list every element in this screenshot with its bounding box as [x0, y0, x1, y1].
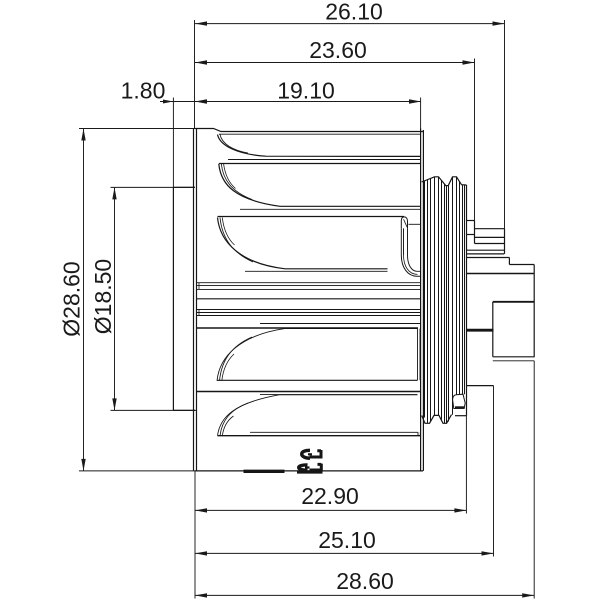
thread end facet dark bottom — [455, 406, 465, 409]
arrows dim 23.60 — [195, 60, 207, 64]
arrows dim 26.10 — [195, 21, 207, 25]
slot D bottom line — [217, 379, 418, 381]
slot E top dark line — [197, 391, 421, 393]
centre line — [197, 298, 421, 300]
rear terminal tab 2 bottom — [475, 236, 505, 238]
slot E inner offset curve — [220, 403, 248, 436]
rear block left edge — [492, 302, 494, 357]
centre band end ticks — [198, 283, 200, 316]
clip feature upper: notch tick — [308, 453, 312, 455]
rear dark step line — [493, 301, 534, 303]
slot D inner offset curve 2 — [222, 354, 234, 381]
clip feature upper: arc part — [302, 450, 310, 458]
dim 28.60 line — [195, 594, 534, 596]
rear terminal tab 2 top — [475, 228, 505, 230]
thick mark on bottom edge — [244, 470, 285, 473]
dim 25.10 line — [195, 552, 494, 554]
rear terminal tab 4 bottom — [467, 253, 505, 255]
rear shelf right edge — [508, 258, 510, 265]
slot C cap inner diagonal — [404, 219, 408, 227]
thread bottom profile — [422, 415, 452, 424]
rear lower step line — [467, 385, 494, 387]
thread top profile — [422, 177, 467, 186]
dim 19.10 line — [195, 101, 421, 103]
dim 23.60 right extension — [474, 59, 476, 221]
slot A lower rib line — [228, 159, 421, 161]
rear terminal tab 4 top — [467, 249, 505, 251]
centre band lines — [197, 283, 421, 290]
front tube face (Ø18.50 cylinder end) — [173, 187, 195, 410]
dia18.50 top extension — [111, 186, 196, 188]
rear terminal tab 1 bottom — [467, 234, 475, 236]
slot B curve — [219, 164, 421, 206]
dim 22.90 line — [195, 509, 466, 511]
slot A curve — [218, 135, 421, 157]
svg-text:23.60: 23.60 — [309, 37, 367, 63]
dim 25.10 right extension — [493, 386, 495, 557]
arrows dia28.60 — [81, 129, 85, 141]
hook mid arc — [404, 255, 418, 274]
slot C lower line — [245, 270, 388, 272]
rear block top edge — [509, 264, 534, 266]
slot E right wall — [418, 432, 420, 435]
body right edge (double line) — [421, 129, 424, 471]
dim 26.10 right extension — [504, 20, 506, 229]
slot B top line — [219, 163, 421, 165]
slot E bottom line — [218, 435, 421, 437]
clip lower baseline thick — [297, 470, 323, 473]
slot C curve — [218, 218, 388, 269]
dia18.50 bottom extension — [111, 409, 197, 411]
slot C inner offset curve 2 — [222, 218, 234, 246]
slot E upper tangent line — [260, 394, 418, 396]
slot D top dark line — [197, 327, 419, 329]
slot C top line — [218, 216, 405, 218]
arrows dim 22.90 — [195, 508, 207, 512]
dim dia28.60 vertical line — [83, 129, 85, 471]
slot A inner offset curve — [220, 135, 248, 154]
dimension texts — [59, 0, 394, 594]
svg-text:Ø28.60: Ø28.60 — [59, 261, 85, 336]
left extension of front face below body — [194, 471, 196, 599]
dia28.60 bottom extension — [79, 470, 195, 472]
dim 26.10 left extension — [194, 20, 196, 129]
slot E inner offset curve 2 — [222, 416, 233, 436]
slot C wall short line right of cap — [409, 223, 421, 225]
clip feature upper: bracket — [310, 450, 322, 457]
clip feature lower: teardrop — [299, 465, 308, 470]
svg-text:Ø18.50: Ø18.50 — [90, 259, 116, 334]
arrows dim 25.10 — [195, 551, 207, 555]
dim 19.10 right extension — [420, 98, 422, 129]
dim 23.60 line — [195, 62, 475, 64]
slot D right wall — [418, 329, 421, 381]
slot C wall verticals — [401, 228, 407, 255]
rear terminal tab 1 right edge — [474, 221, 476, 244]
arrows dim 1.80 (outside) — [163, 100, 173, 104]
body top inner edge line — [219, 133, 421, 135]
dim 28.60 right extension — [533, 361, 535, 599]
rear shelf line — [467, 257, 510, 259]
slot D inner offset curve — [220, 337, 253, 381]
dim dia18.50 vertical line — [114, 187, 116, 410]
body top edge with chamfer — [195, 129, 423, 132]
thread end facet — [453, 394, 466, 408]
arrowheads — [81, 21, 534, 597]
front face of body (double line) — [194, 129, 197, 472]
hook inner arc — [408, 255, 421, 271]
dim 1.80 left extension — [172, 98, 174, 188]
rear block bottom edge — [493, 356, 534, 358]
dim 1.80 line — [160, 101, 197, 103]
body bottom edge — [195, 470, 423, 472]
slot C inner offset curve — [220, 218, 253, 263]
dim 22.90 right extension — [465, 416, 467, 514]
slot E curve — [218, 395, 418, 436]
rear terminal tab 2 right edge — [504, 229, 506, 254]
slot E floor line — [250, 431, 418, 433]
slot D upper thin line — [260, 323, 421, 325]
dim 26.10 line — [195, 23, 505, 25]
centre band lower lines — [197, 310, 421, 316]
arrows dim 19.10 — [195, 99, 207, 103]
hook outer arc — [401, 255, 420, 276]
clip feature lower: bracket — [310, 464, 322, 470]
rear terminal tab 3 line — [475, 243, 505, 245]
svg-text:19.10: 19.10 — [277, 78, 335, 104]
slot C right end cap dome — [401, 217, 407, 229]
svg-text:28.60: 28.60 — [336, 568, 394, 594]
slot D curve — [217, 329, 418, 381]
svg-text:1.80: 1.80 — [121, 78, 166, 104]
svg-text:26.10: 26.10 — [325, 0, 383, 25]
slot B inner offset curve 2 — [224, 164, 236, 189]
rear block bottom second line — [493, 360, 534, 362]
slot B inner offset curve — [221, 164, 252, 200]
dia28.60 top extension — [79, 128, 195, 130]
rear terminal tab 1 top — [467, 220, 475, 222]
rear flange bottom edge behind threads — [455, 415, 467, 417]
rear long mid line — [467, 273, 535, 275]
rear flange face edge behind threads — [466, 185, 468, 416]
slot B lower rib line — [240, 208, 421, 210]
rear thick notch line — [467, 329, 494, 332]
arrows dim 28.60 — [195, 593, 207, 597]
svg-text:25.10: 25.10 — [318, 527, 376, 553]
clip feature lower: notch tick — [305, 466, 310, 468]
rear block right edge — [533, 265, 535, 358]
svg-text:22.90: 22.90 — [301, 483, 359, 509]
arrows dia18.50 — [112, 187, 116, 199]
thread strand lines — [425, 177, 465, 423]
